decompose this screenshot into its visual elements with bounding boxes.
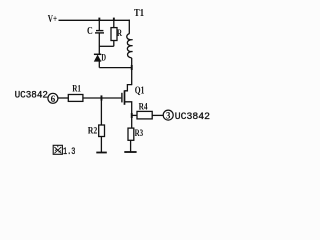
wire R bottom lead — [113, 41, 115, 47]
terminal bar R3 — [124, 151, 136, 153]
wire capacitor branch from rail — [98, 20, 100, 30]
svg-text:R1: R1 — [72, 85, 81, 95]
wire R1 to gate — [83, 97, 121, 99]
svg-text:R3: R3 — [135, 129, 144, 139]
transformer T1 primary winding — [127, 34, 133, 58]
wire capacitor bottom to diode — [98, 34, 100, 55]
svg-text:1.3: 1.3 — [63, 146, 75, 158]
node junction drain net — [131, 65, 133, 70]
wire R2 bottom lead — [100, 137, 102, 153]
figure caption glyph box — [53, 145, 62, 154]
wire R4 to pin 3 — [152, 114, 163, 116]
wire diode anode down — [98, 61, 100, 67]
node junction on rail at capacitor branch — [98, 18, 100, 21]
svg-text:V+: V+ — [48, 14, 58, 25]
node junction on rail at R branch — [113, 18, 115, 21]
resistor R (snubber) — [111, 28, 117, 41]
resistor R4 — [137, 111, 152, 119]
svg-text:R: R — [117, 29, 122, 39]
resistor R3 — [128, 128, 134, 140]
wire R3 top lead — [131, 115, 133, 128]
svg-text:UC3842: UC3842 — [175, 111, 210, 123]
svg-text:R2: R2 — [88, 126, 98, 136]
node junction at R4 branch — [131, 113, 133, 118]
wire drain jog — [125, 85, 132, 91]
svg-text:3: 3 — [166, 111, 171, 121]
svg-text:C: C — [87, 26, 93, 37]
capacitor C — [95, 31, 104, 33]
svg-text:D: D — [101, 53, 106, 63]
svg-text:T1: T1 — [134, 8, 144, 19]
wire pin6 to R1 — [58, 97, 69, 99]
node junction at R2 branch — [101, 95, 103, 100]
resistor R2 — [99, 125, 105, 137]
svg-text:6: 6 — [51, 94, 56, 104]
resistor R1 — [68, 95, 83, 102]
wire top rail — [59, 19, 130, 21]
wire source lead — [125, 102, 132, 116]
wire diode bottom to drain node — [99, 67, 131, 69]
wire R snubber top lead — [113, 20, 115, 27]
node pin 3 circle — [163, 110, 173, 120]
wire transformer bottom lead — [131, 58, 133, 85]
terminal bar R2 — [96, 152, 107, 154]
svg-text:UC3842: UC3842 — [15, 90, 48, 102]
diode D — [94, 54, 101, 61]
wire R3 bottom lead — [130, 140, 132, 151]
svg-text:R4: R4 — [139, 103, 148, 113]
transistor Q1 gate bar — [121, 93, 123, 103]
wire joining C branch and R branch — [99, 45, 114, 47]
node pin 6 circle — [48, 93, 58, 103]
wire R2 top lead — [100, 98, 102, 125]
transistor Q1 channel bar — [124, 90, 126, 105]
wire transformer top lead — [128, 20, 130, 34]
svg-text:Q1: Q1 — [135, 85, 145, 96]
wire R4 left lead — [132, 114, 137, 116]
